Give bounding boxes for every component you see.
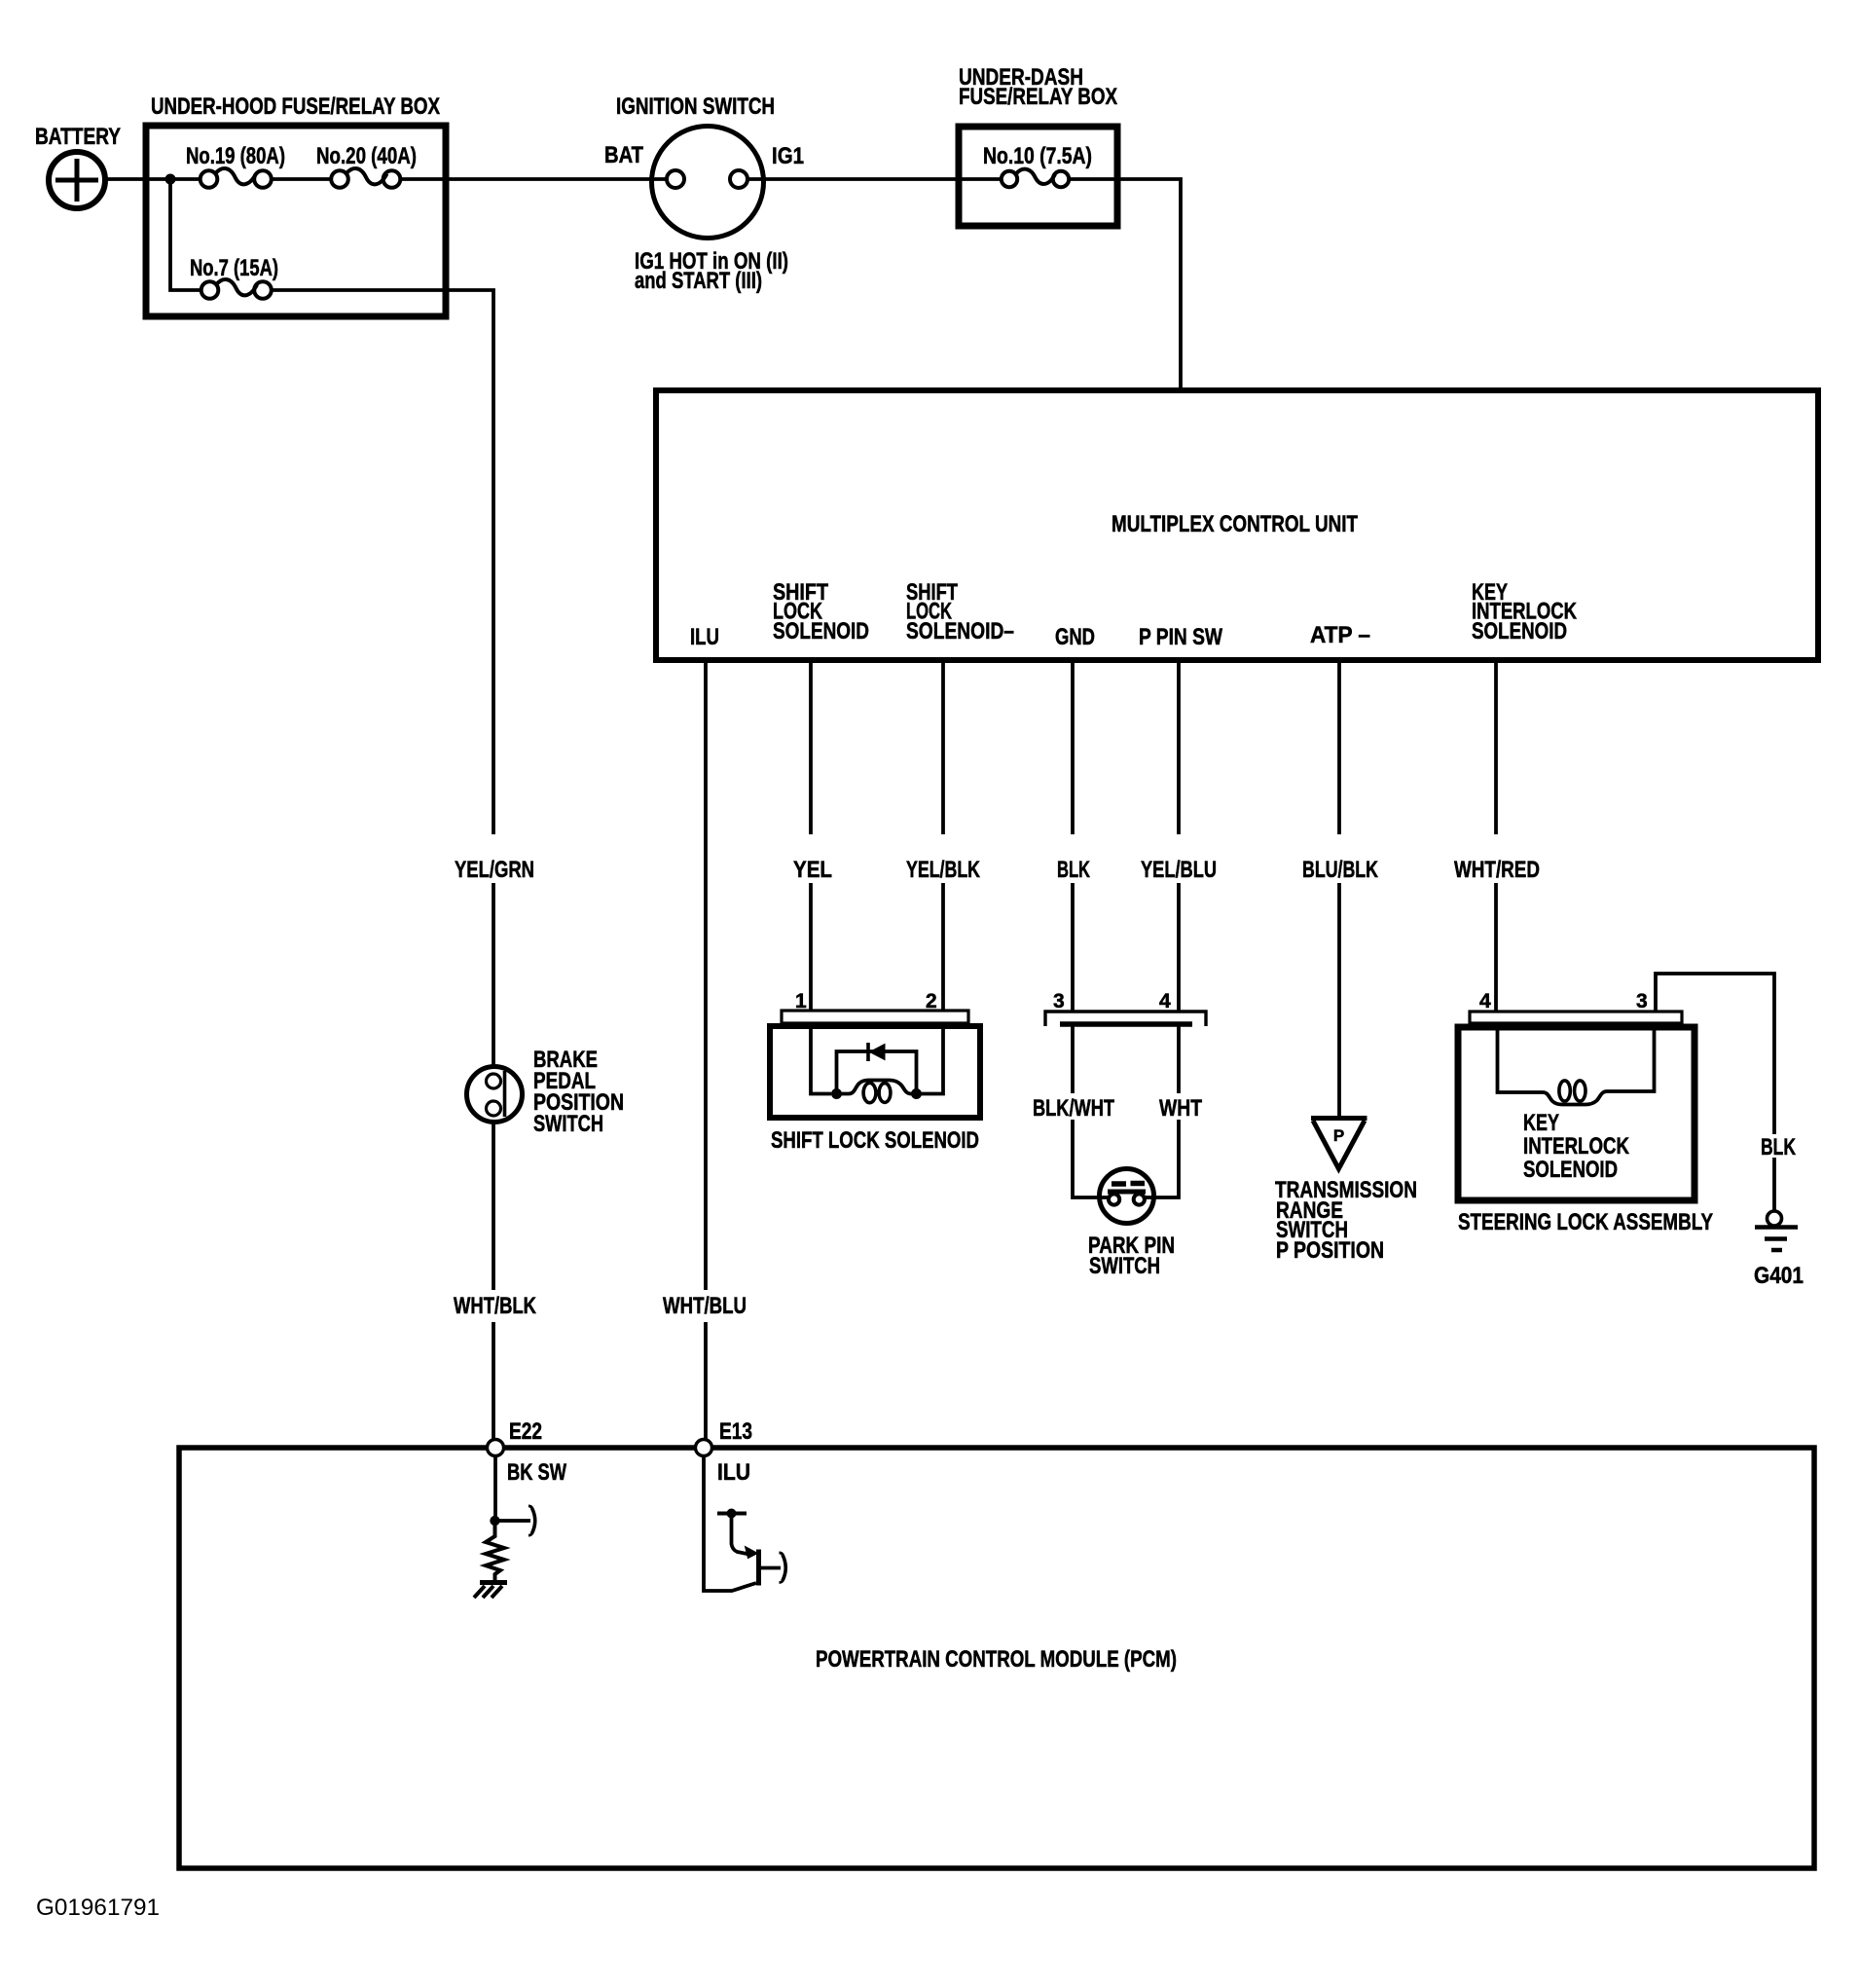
svg-text:4: 4 <box>1159 990 1171 1012</box>
svg-text:BAT: BAT <box>604 142 643 168</box>
svg-text:WHT: WHT <box>1159 1095 1202 1122</box>
wire fuse No.7 to YEL/GRN drop <box>272 290 493 1067</box>
fuse No.19 (80A) <box>200 168 272 188</box>
svg-text:BK SW: BK SW <box>507 1459 566 1486</box>
svg-text:P PIN SW: P PIN SW <box>1139 624 1222 650</box>
wire brake switch to E22 <box>492 1123 495 1441</box>
svg-text:No.19 (80A): No.19 (80A) <box>186 143 285 169</box>
connector E22 <box>488 1440 504 1456</box>
svg-text:ATP –: ATP – <box>1310 622 1370 648</box>
svg-text:2: 2 <box>926 990 937 1012</box>
key interlock solenoid coil <box>1498 1030 1655 1105</box>
svg-text:No.10 (7.5A): No.10 (7.5A) <box>983 143 1092 169</box>
svg-text:IG1: IG1 <box>772 143 804 169</box>
svg-text:No.7 (15A): No.7 (15A) <box>190 255 278 281</box>
svg-text:SOLENOID–: SOLENOID– <box>906 618 1014 644</box>
brake pedal position switch <box>467 1067 523 1123</box>
wire IG1 to under-dash box <box>747 177 1002 181</box>
wire battery to under-hood box <box>105 177 200 181</box>
svg-text:SOLENOID: SOLENOID <box>773 618 869 644</box>
wire ILU pin down <box>704 660 708 1440</box>
svg-text:BATTERY: BATTERY <box>35 124 121 150</box>
svg-text:3: 3 <box>1053 990 1065 1012</box>
shift lock solenoid internals: coil and diode <box>811 1029 943 1103</box>
svg-text:4: 4 <box>1479 990 1491 1012</box>
wire between fuses <box>272 177 331 181</box>
svg-text:1: 1 <box>795 990 807 1012</box>
svg-text:BLU/BLK: BLU/BLK <box>1302 857 1378 883</box>
svg-text:MULTIPLEX CONTROL UNIT: MULTIPLEX CONTROL UNIT <box>1112 511 1358 537</box>
fuse No.7 (15A) <box>201 279 272 299</box>
connector E13 <box>696 1440 712 1456</box>
svg-text:WHT/BLU: WHT/BLU <box>663 1293 747 1319</box>
svg-text:FUSE/RELAY BOX: FUSE/RELAY BOX <box>959 84 1117 110</box>
fuse No.20 (40A) <box>331 168 400 188</box>
under-hood fuse/relay box <box>146 126 446 316</box>
svg-text:WHT/BLK: WHT/BLK <box>454 1293 537 1319</box>
powertrain control module box <box>179 1448 1814 1868</box>
svg-text:3: 3 <box>1636 990 1648 1012</box>
node junction dot in fuse box <box>165 174 176 185</box>
svg-text:INTERLOCK: INTERLOCK <box>1523 1133 1630 1160</box>
svg-text:POWERTRAIN CONTROL MODULE (PCM: POWERTRAIN CONTROL MODULE (PCM) <box>816 1646 1177 1673</box>
under-dash fuse/relay box <box>959 127 1117 226</box>
connector steering lock pins 4-3 <box>1470 1012 1682 1023</box>
svg-text:BLK: BLK <box>1057 857 1090 883</box>
connector park pin switch pins 3-4 <box>1045 1012 1206 1026</box>
svg-text:SWITCH: SWITCH <box>1089 1253 1160 1279</box>
svg-text:UNDER-HOOD FUSE/RELAY BOX: UNDER-HOOD FUSE/RELAY BOX <box>151 93 440 120</box>
svg-text:SHIFT LOCK SOLENOID: SHIFT LOCK SOLENOID <box>771 1127 979 1154</box>
wire junction down to fuse No.7 <box>170 179 201 290</box>
park pin switch <box>1100 1169 1154 1224</box>
svg-text:and START (III): and START (III) <box>635 268 762 294</box>
connector shift lock solenoid pins 1-2 <box>782 1011 968 1023</box>
wire BLK/WHT to park pin switch <box>1073 1026 1110 1197</box>
fuse No.10 (7.5A) <box>1002 169 1069 188</box>
svg-text:G401: G401 <box>1754 1263 1804 1289</box>
svg-text:STEERING LOCK ASSEMBLY: STEERING LOCK ASSEMBLY <box>1458 1209 1713 1235</box>
steering lock assembly box <box>1458 1027 1695 1200</box>
ignition switch SW1 <box>652 127 764 239</box>
multiplex control unit box <box>656 390 1818 660</box>
svg-text:SOLENOID: SOLENOID <box>1523 1157 1618 1183</box>
svg-text:YEL: YEL <box>793 857 832 883</box>
wire pin3 up over to BLK ground <box>1656 974 1774 1211</box>
wire fuse No.10 to multiplex control unit <box>1069 179 1181 390</box>
svg-text:E22: E22 <box>509 1418 542 1445</box>
PCM internal: E22 branch with resistor to ground <box>474 1456 535 1599</box>
svg-text:SWITCH: SWITCH <box>533 1111 603 1137</box>
svg-text:ILU: ILU <box>690 624 719 650</box>
svg-text:SOLENOID: SOLENOID <box>1472 618 1567 644</box>
svg-text:E13: E13 <box>719 1418 752 1445</box>
svg-text:KEY: KEY <box>1523 1110 1559 1136</box>
wire BLK GND pin <box>1071 660 1075 1012</box>
ground G401 <box>1755 1211 1798 1250</box>
svg-text:G01961791: G01961791 <box>36 1895 160 1921</box>
wire YEL/BLK shift lock solenoid minus pin <box>941 660 945 1012</box>
svg-text:IGNITION SWITCH: IGNITION SWITCH <box>616 93 775 120</box>
svg-text:No.20 (40A): No.20 (40A) <box>316 143 417 169</box>
wire WHT/RED key interlock pin <box>1494 660 1498 1012</box>
svg-text:GND: GND <box>1055 624 1095 650</box>
svg-text:P: P <box>1333 1126 1344 1145</box>
svg-text:YEL/BLU: YEL/BLU <box>1141 857 1217 883</box>
svg-text:P POSITION: P POSITION <box>1276 1237 1384 1264</box>
wire fuse20 to ignition switch BAT <box>401 177 668 181</box>
svg-text:BLK: BLK <box>1761 1134 1796 1160</box>
svg-text:BLK/WHT: BLK/WHT <box>1033 1095 1114 1122</box>
svg-text:WHT/RED: WHT/RED <box>1454 857 1540 883</box>
wire YEL/BLU P PIN SW pin <box>1177 660 1181 1012</box>
svg-text:YEL/BLK: YEL/BLK <box>906 857 980 883</box>
wire WHT to park pin switch <box>1145 1026 1179 1197</box>
wire YEL shift lock solenoid pin <box>809 660 813 1012</box>
wire BLU/BLK ATP pin <box>1337 660 1341 1116</box>
PCM internal: E13 branch with transistor <box>704 1456 785 1592</box>
transmission range switch triangle <box>1311 1119 1367 1169</box>
battery B1 <box>49 152 105 208</box>
svg-text:ILU: ILU <box>717 1459 750 1486</box>
svg-text:YEL/GRN: YEL/GRN <box>455 857 534 883</box>
shift lock solenoid box <box>770 1026 980 1118</box>
